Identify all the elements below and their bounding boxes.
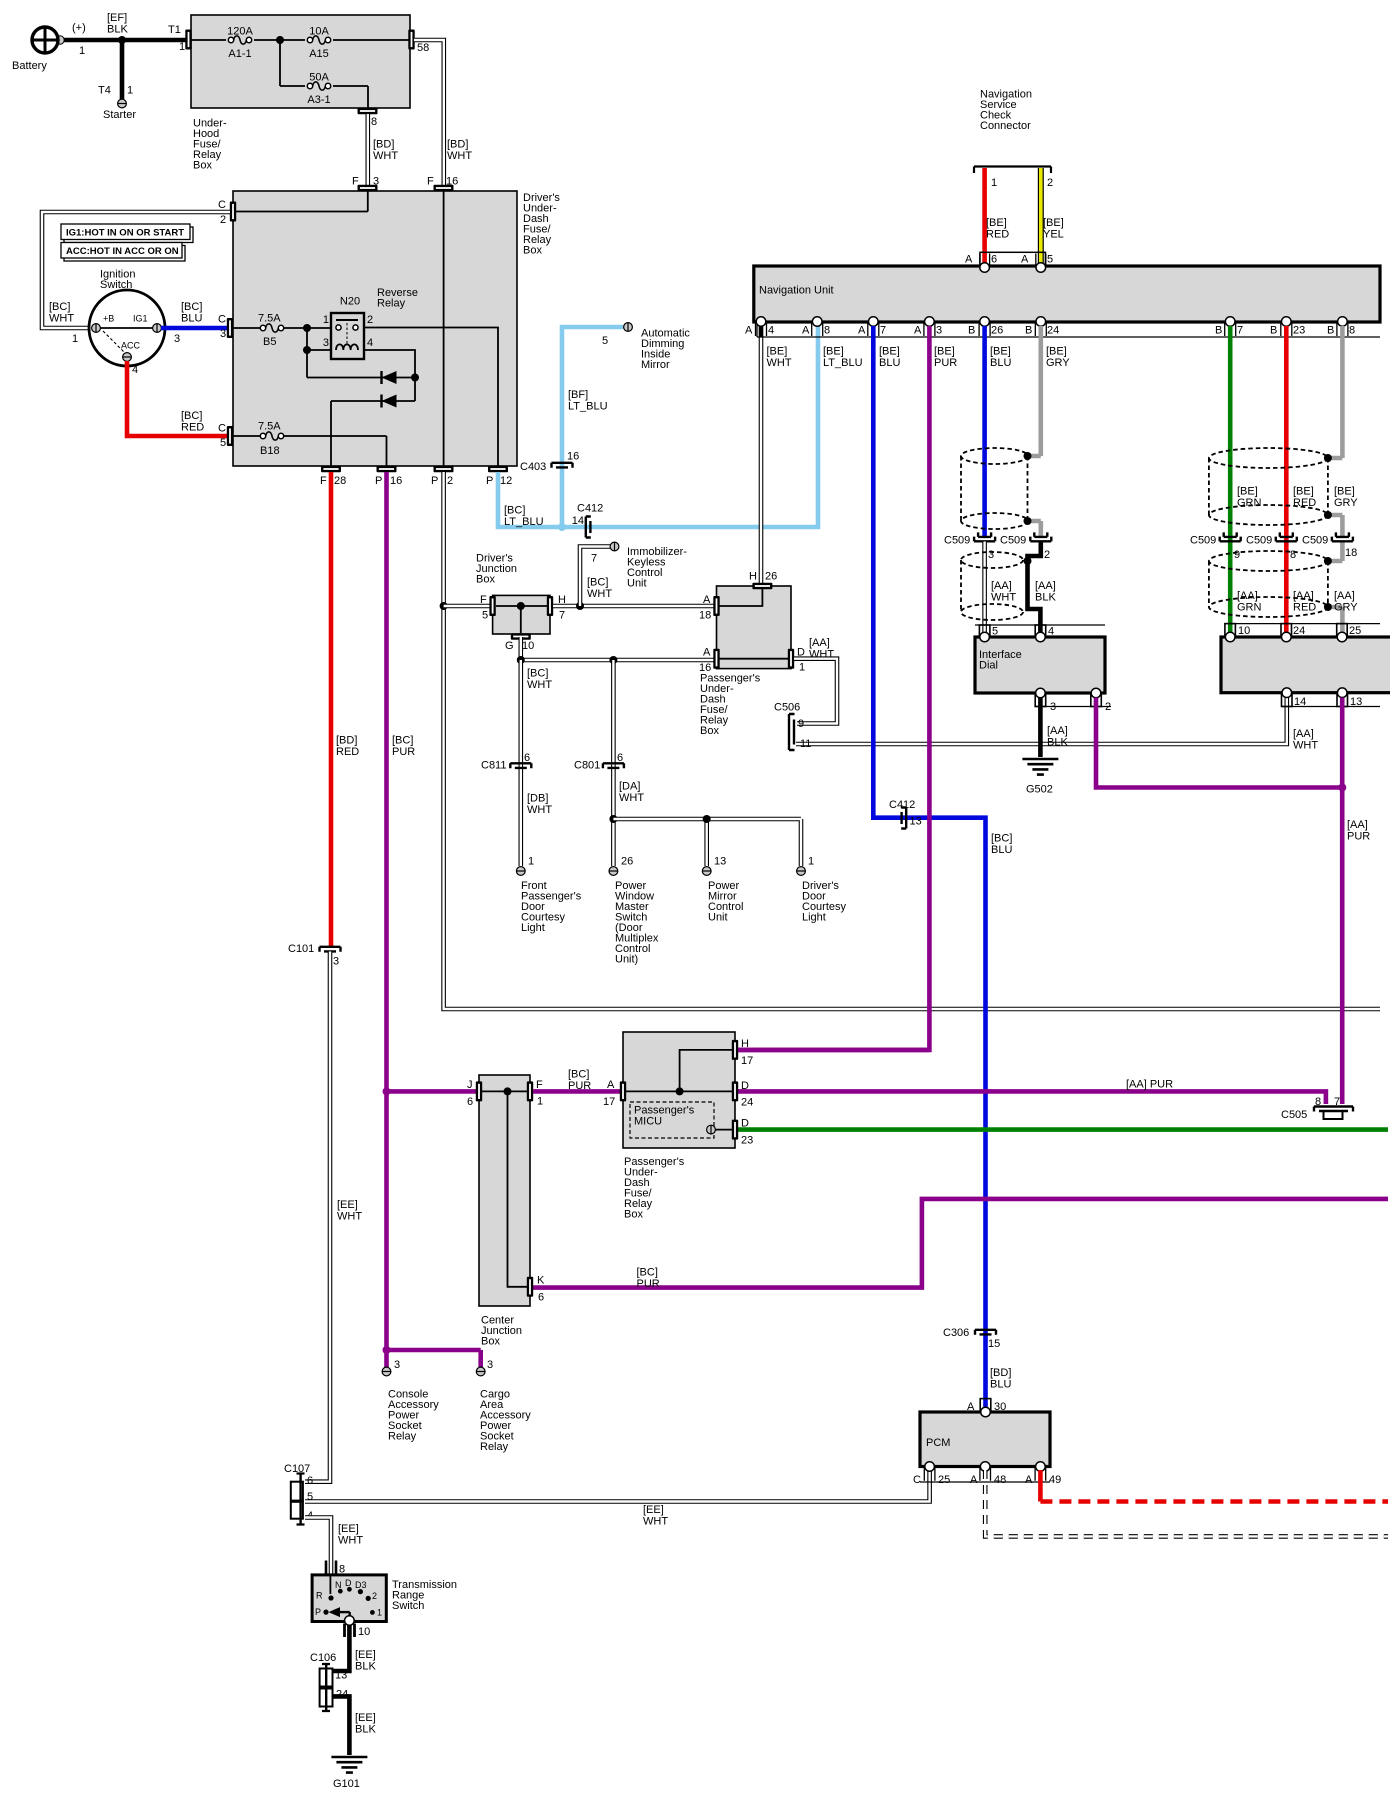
- svg-text:7: 7: [1237, 325, 1243, 337]
- wire [BF] LT_BLU mirror: [562, 327, 623, 527]
- connector A17: [620, 1081, 626, 1101]
- svg-text:24: 24: [741, 1097, 753, 1109]
- wire [BC] BLU ignition IG1 to C3: [161, 326, 227, 331]
- svg-text:[BC]BLU: [BC]BLU: [181, 301, 202, 325]
- fuse 120A A1-1: [228, 36, 251, 44]
- svg-text:[BC]PUR: [BC]PUR: [568, 1069, 591, 1093]
- svg-text:A: A: [703, 594, 711, 606]
- svg-text:C509: C509: [1302, 535, 1328, 547]
- svg-text:5: 5: [992, 626, 998, 638]
- junction mirror control: [703, 815, 711, 823]
- svg-text:PCM: PCM: [926, 1437, 950, 1449]
- terminal dial 2: [1091, 688, 1101, 698]
- svg-text:6: 6: [538, 1292, 544, 1304]
- svg-text:2: 2: [447, 475, 453, 487]
- svg-text:26: 26: [991, 325, 1003, 337]
- svg-text:2: 2: [1044, 549, 1050, 561]
- svg-text:A: A: [858, 325, 866, 337]
- terminal immobilizer pin 7: [610, 542, 619, 551]
- svg-text:1: 1: [799, 662, 805, 674]
- diode D1: [382, 371, 397, 384]
- svg-text:6: 6: [467, 1096, 473, 1108]
- svg-text:11: 11: [800, 738, 811, 750]
- svg-text:1: 1: [537, 1096, 543, 1108]
- junction internal cjb: [504, 1087, 512, 1095]
- terminal module 14: [1282, 688, 1292, 698]
- junction B5 node: [303, 324, 311, 332]
- wire white courtesy row: [613, 819, 801, 866]
- svg-text:13: 13: [335, 1670, 347, 1682]
- svg-text:1: 1: [72, 333, 78, 345]
- wire white to F5: [444, 604, 490, 609]
- terminal A48: [980, 1462, 990, 1472]
- pin bracket module 24: [1281, 624, 1292, 637]
- svg-text:120A: 120A: [227, 26, 253, 38]
- passenger's under-dash fuse/relay box upper: [717, 586, 792, 669]
- interface dial top strip: [975, 624, 1105, 626]
- wire [BC] PUR H17 right: [738, 1048, 929, 1053]
- wire [AA] PUR D24 to C505-8: [738, 1091, 1326, 1104]
- wire [AA] BLK dial pin3 to G502: [1038, 698, 1043, 758]
- svg-text:F: F: [480, 594, 487, 606]
- svg-text:B: B: [1025, 325, 1032, 337]
- contact 2: [366, 1596, 371, 1601]
- connector H17: [732, 1040, 738, 1060]
- junction internal: [676, 1087, 684, 1095]
- svg-text:12: 12: [500, 475, 512, 487]
- svg-text:C412: C412: [889, 799, 915, 811]
- terminal B24: [1036, 317, 1046, 327]
- junction C801 node: [609, 656, 617, 664]
- terminal A7: [869, 317, 879, 327]
- wire [AA] PUR pin13 down: [1340, 698, 1345, 1105]
- fuse 10A A15: [307, 36, 330, 44]
- svg-text:C801: C801: [574, 760, 600, 772]
- wire [EE] BLK C106-24 to G101: [333, 1696, 349, 1755]
- transmission range switch box: [312, 1575, 386, 1622]
- connector C801 6: [603, 763, 624, 768]
- svg-text:16: 16: [390, 475, 402, 487]
- svg-text:C: C: [913, 1474, 921, 1486]
- svg-text:ACC:HOT IN ACC OR ON: ACC:HOT IN ACC OR ON: [66, 246, 179, 257]
- terminal console accessory power socket relay pin 3: [382, 1367, 391, 1376]
- wire [BE]/[BC]/[BD] BLU A7 to PCM A30: [873, 326, 985, 1412]
- junction purple node: [1338, 784, 1346, 792]
- svg-text:3: 3: [323, 337, 329, 349]
- terminal A4: [756, 317, 766, 327]
- svg-text:C: C: [218, 314, 226, 326]
- under-hood fuse/relay box: [191, 15, 410, 108]
- svg-text:24: 24: [1047, 325, 1059, 337]
- svg-text:[AA]RED: [AA]RED: [1293, 590, 1316, 614]
- terminal A6: [980, 263, 990, 273]
- svg-text:[EE]BLK: [EE]BLK: [355, 1712, 376, 1736]
- pin bracket module 14: [1282, 693, 1293, 707]
- junction diode node: [411, 374, 419, 382]
- connector pin 58: [408, 30, 414, 50]
- wire diode1 row: [307, 350, 415, 378]
- wire [DA] WHT to power window master switch: [611, 660, 616, 866]
- junction courtesy row: [609, 815, 617, 823]
- wire fuse B5 row: [233, 327, 336, 329]
- starter terminal: [118, 99, 127, 108]
- svg-text:2: 2: [367, 314, 373, 326]
- svg-text:B: B: [968, 325, 975, 337]
- wire [EE] WHT C101 to C107: [305, 952, 330, 1482]
- wire [BC] PUR P16 down: [384, 472, 389, 1350]
- terminal ACC: [123, 353, 132, 362]
- svg-text:[BE]PUR: [BE]PUR: [934, 346, 957, 370]
- svg-text:7.5A: 7.5A: [258, 313, 281, 325]
- nav bottom connector strip: [757, 322, 1380, 337]
- svg-text:1: 1: [323, 314, 329, 326]
- terminal B7: [1225, 317, 1235, 327]
- connector C403 16: [552, 463, 573, 468]
- wire [BE] RED check connector pin1: [982, 168, 987, 266]
- svg-text:A: A: [970, 1474, 978, 1486]
- contact N: [338, 1589, 343, 1594]
- svg-text:C509: C509: [1246, 535, 1272, 547]
- svg-text:2: 2: [220, 214, 226, 226]
- terminal module 24: [1282, 632, 1292, 642]
- wire [AA] GRN D23 to right edge: [738, 1127, 1388, 1132]
- connector C509 9: [1220, 532, 1241, 541]
- svg-text:J: J: [467, 1079, 473, 1091]
- svg-text:16: 16: [446, 176, 458, 188]
- svg-text:A1-1: A1-1: [228, 48, 251, 60]
- svg-text:(+): (+): [72, 22, 86, 34]
- pin bracket dial 3: [1035, 693, 1046, 707]
- ignition switch: [89, 290, 165, 366]
- svg-text:8: 8: [1315, 1096, 1321, 1108]
- terminal module 10: [1225, 632, 1235, 642]
- terminal power mirror control unit pin 13: [702, 867, 711, 876]
- svg-text:C509: C509: [1000, 535, 1026, 547]
- svg-text:3: 3: [333, 956, 339, 968]
- svg-text:1: 1: [79, 45, 85, 57]
- svg-text:C403: C403: [520, 461, 546, 473]
- svg-text:C: C: [218, 199, 226, 211]
- connector A18: [713, 596, 719, 616]
- pin bracket C25: [924, 1468, 935, 1481]
- wire [BC] WHT P2 down and right: [444, 472, 1380, 1009]
- connector J6: [476, 1081, 482, 1101]
- pin bracket module 13: [1337, 693, 1348, 707]
- svg-text:2: 2: [1105, 701, 1111, 713]
- svg-text:T1: T1: [168, 24, 181, 36]
- connector C2: [230, 202, 236, 222]
- passenger's under-dash fuse/relay box lower: [623, 1032, 735, 1148]
- wire [BE] PUR A3 to H17: [738, 326, 929, 1050]
- svg-text:C: C: [218, 423, 226, 435]
- svg-text:7: 7: [880, 325, 886, 337]
- svg-text:[BC]BLU: [BC]BLU: [991, 833, 1012, 857]
- wire [BC] PUR to J6: [387, 1089, 478, 1094]
- svg-text:1: 1: [808, 856, 814, 868]
- wire internal A18 to H26: [719, 589, 788, 659]
- terminal module 25: [1337, 632, 1347, 642]
- svg-text:ACC: ACC: [121, 341, 141, 351]
- junction G10 node: [517, 656, 525, 664]
- svg-text:[AA] PUR: [AA] PUR: [1126, 1079, 1173, 1091]
- connector D23: [732, 1120, 738, 1140]
- pin bracket A49: [1035, 1468, 1046, 1481]
- svg-text:A: A: [802, 325, 810, 337]
- svg-text:5: 5: [1047, 254, 1053, 266]
- svg-text:13: 13: [1350, 696, 1362, 708]
- svg-text:3: 3: [936, 325, 942, 337]
- svg-text:18: 18: [1345, 547, 1357, 559]
- pin bracket dial 5: [979, 625, 990, 637]
- junction blk drain: [1024, 557, 1032, 565]
- svg-text:1: 1: [377, 1608, 382, 1618]
- pin bracket PCM A30: [980, 1399, 991, 1412]
- svg-text:48: 48: [994, 1474, 1006, 1486]
- wire internal J6-F1-K6: [482, 1091, 527, 1286]
- svg-text:1: 1: [127, 85, 133, 97]
- svg-text:K: K: [537, 1275, 545, 1287]
- svg-text:C506: C506: [774, 702, 800, 714]
- wire TRS internal to R: [329, 1576, 331, 1594]
- wire [AA] WHT C506-11 to module pin14: [796, 694, 1287, 744]
- svg-text:A15: A15: [309, 48, 329, 60]
- contact D: [347, 1587, 352, 1592]
- wire relay pin2 to P12: [364, 328, 498, 467]
- wire [BC] WHT ignition loop: [42, 212, 230, 328]
- svg-text:G101: G101: [333, 1778, 360, 1790]
- wire [BC] PUR F1 to A17: [533, 1089, 620, 1094]
- note box IG1: [61, 224, 193, 243]
- svg-text:C412: C412: [577, 503, 603, 515]
- svg-text:B5: B5: [263, 336, 276, 348]
- module bottom strip: [1282, 706, 1380, 708]
- svg-text:7: 7: [591, 553, 597, 565]
- svg-text:D: D: [741, 1080, 749, 1092]
- terminal dial 4: [1036, 632, 1046, 642]
- junction immobilizer branch: [576, 602, 584, 610]
- pin bracket A48: [980, 1468, 991, 1481]
- svg-text:P: P: [315, 1607, 321, 1617]
- svg-text:3: 3: [220, 328, 226, 340]
- drain wire dashed: [1027, 456, 1029, 521]
- junction coil node: [303, 346, 311, 354]
- wire [BE] BLU B26 to C509: [982, 326, 987, 536]
- wire [EE] BLK pin10 to C106: [333, 1626, 349, 1672]
- wire white G10 to A16: [521, 637, 714, 660]
- svg-text:24: 24: [1293, 625, 1305, 637]
- wire fuse B18 row: [233, 436, 387, 466]
- svg-text:4: 4: [367, 337, 373, 349]
- ground G101: [331, 1757, 367, 1773]
- wire junction box internal: [496, 606, 547, 633]
- connector C106: [320, 1664, 333, 1712]
- svg-text:3: 3: [1050, 701, 1056, 713]
- svg-text:[BE]GRY: [BE]GRY: [1046, 346, 1070, 370]
- contact D3: [358, 1589, 363, 1594]
- svg-text:D: D: [741, 1118, 749, 1130]
- fuse 7.5A B18: [260, 432, 283, 440]
- terminal MICU: [707, 1125, 716, 1134]
- terminal B8: [1338, 317, 1348, 327]
- wire white H7 to A18: [553, 604, 714, 609]
- svg-text:6: 6: [307, 1475, 313, 1487]
- pin bracket module 10: [1225, 624, 1236, 637]
- connector strip A6 A5: [980, 252, 1045, 266]
- shield cylinder B26 upper: [961, 448, 1028, 529]
- connector C509 3: [974, 532, 995, 541]
- terminal module 13: [1337, 688, 1347, 698]
- svg-text:6: 6: [524, 752, 530, 764]
- junction P2 white at junction box: [440, 602, 448, 610]
- TRS wiper arrow: [329, 1607, 350, 1621]
- svg-text:9: 9: [1234, 549, 1240, 561]
- wire C2 to F3 internal: [236, 191, 368, 212]
- svg-text:A: A: [1021, 254, 1029, 266]
- svg-text:23: 23: [1293, 325, 1305, 337]
- connector F3: [358, 185, 378, 191]
- module top strip: [1226, 623, 1380, 625]
- svg-text:A: A: [965, 254, 973, 266]
- wire [DB] WHT to front passenger courtesy light: [518, 660, 523, 866]
- svg-text:3: 3: [373, 176, 379, 188]
- terminal driver's door courtesy light pin 1: [797, 867, 806, 876]
- shield cylinder lower left: [961, 552, 1023, 620]
- wire [BE] WHT A4 to H26: [759, 326, 764, 583]
- junction lt_blu: [558, 523, 566, 531]
- junction purple console node: [383, 1087, 391, 1095]
- svg-text:[BC]PUR: [BC]PUR: [392, 735, 415, 759]
- svg-text:H: H: [749, 571, 757, 583]
- connector C505: [1314, 1107, 1353, 1120]
- svg-text:4: 4: [132, 364, 138, 376]
- svg-text:8: 8: [1290, 549, 1296, 561]
- svg-text:A: A: [1025, 1474, 1033, 1486]
- svg-text:1: 1: [528, 856, 534, 868]
- svg-text:A: A: [703, 647, 711, 659]
- svg-text:IG1: IG1: [133, 314, 148, 324]
- connector pin 10 TRS: [345, 1624, 355, 1638]
- wire [EE] WHT C107-4 to TRS pin8: [305, 1518, 331, 1576]
- svg-text:3: 3: [487, 1359, 493, 1371]
- wire [EE] WHT C107-5 to PCM C25: [305, 1470, 930, 1502]
- terminal B23: [1282, 317, 1292, 327]
- wire to relay coil: [307, 328, 364, 351]
- svg-text:[EE]BLK: [EE]BLK: [355, 1649, 376, 1673]
- junction internal: [517, 602, 525, 610]
- terminal mirror pin 5: [624, 323, 633, 332]
- connector C107: [291, 1473, 305, 1525]
- wire under-hood internal: [191, 40, 412, 108]
- connector C509 8: [1276, 532, 1297, 541]
- wire [BE] GRY B24 drain upper: [1028, 326, 1041, 536]
- svg-text:7.5A: 7.5A: [258, 421, 281, 433]
- svg-text:16: 16: [567, 451, 579, 463]
- battery: [31, 26, 59, 54]
- svg-text:C811: C811: [481, 760, 506, 772]
- connector D1: [788, 649, 794, 669]
- connector F16: [434, 185, 454, 191]
- pin bracket dial 4: [1035, 625, 1046, 637]
- svg-text:58: 58: [417, 42, 429, 54]
- wire [AA] WHT D1 to C506: [794, 659, 837, 724]
- svg-text:[BD]RED: [BD]RED: [336, 735, 359, 759]
- contact 1: [370, 1610, 375, 1615]
- wire [AA] WHT C509-3 to dial pin5: [982, 542, 987, 635]
- svg-text:F: F: [427, 176, 434, 188]
- svg-text:10: 10: [358, 1626, 370, 1638]
- junction battery/starter: [118, 36, 126, 44]
- connector C509 18: [1332, 532, 1353, 541]
- connector F28: [321, 466, 341, 472]
- svg-text:8: 8: [371, 116, 377, 128]
- pin ticks nav strip: [756, 324, 1348, 337]
- wire [BE] YEL check connector pin2: [1038, 168, 1044, 266]
- svg-text:[BC]RED: [BC]RED: [181, 410, 204, 434]
- wire [BC] LT_BLU P12 to A8: [498, 326, 818, 527]
- drain dashed right lower: [1327, 561, 1329, 607]
- connector C412 14: [586, 517, 591, 538]
- svg-text:Starter: Starter: [103, 109, 136, 121]
- svg-text:F: F: [352, 176, 359, 188]
- shield cylinder right upper: [1209, 448, 1328, 525]
- terminal TRS pin 10: [345, 1616, 355, 1626]
- shield cylinder right lower: [1209, 551, 1328, 617]
- svg-text:1: 1: [179, 41, 185, 53]
- interface dial box: [975, 637, 1105, 693]
- svg-text:[AA]GRY: [AA]GRY: [1334, 590, 1358, 614]
- wire [AA] BLK C509-2 to dial pin4: [1028, 542, 1041, 638]
- svg-text:[BE]RED: [BE]RED: [986, 217, 1009, 241]
- svg-text:C509: C509: [944, 535, 970, 547]
- terminal C25: [925, 1462, 935, 1472]
- svg-text:[AA]BLK: [AA]BLK: [1047, 725, 1068, 749]
- wire [EE] WHT dashed A48: [985, 1470, 1388, 1536]
- connector C306 15: [975, 1330, 996, 1335]
- svg-text:D3: D3: [355, 1580, 367, 1590]
- svg-text:14: 14: [572, 515, 584, 527]
- terminal A49: [1036, 1462, 1046, 1472]
- svg-text:15: 15: [988, 1338, 1000, 1350]
- terminal A30: [981, 1407, 991, 1417]
- fuse 50A A3-1: [307, 82, 330, 90]
- wire [BE]/[AA] GRN B7 to module pin10: [1228, 326, 1233, 637]
- passenger's MICU dashed box: [630, 1102, 714, 1138]
- svg-text:4: 4: [1048, 626, 1054, 638]
- svg-text:A: A: [607, 1079, 615, 1091]
- pin bracket module 25: [1337, 624, 1348, 637]
- svg-text:[BE]GRY: [BE]GRY: [1334, 486, 1358, 510]
- connector C509 2: [1030, 532, 1051, 541]
- svg-text:9: 9: [798, 718, 804, 730]
- svg-text:B: B: [1215, 325, 1222, 337]
- terminal +B: [92, 324, 101, 333]
- svg-text:N20: N20: [340, 296, 360, 308]
- svg-text:R: R: [316, 1591, 323, 1601]
- terminal IG1: [153, 324, 162, 333]
- connector P12: [488, 466, 508, 472]
- connector pin 8 TRS: [326, 1561, 336, 1575]
- diode D2: [382, 395, 397, 408]
- terminal dial 3: [1036, 688, 1046, 698]
- contact P: [323, 1610, 328, 1615]
- terminal front passenger door courtesy light pin 1: [516, 867, 525, 876]
- wire [AA] PUR dial pin2 to node: [1096, 698, 1342, 788]
- svg-text:2: 2: [372, 1591, 377, 1601]
- svg-text:G502: G502: [1026, 784, 1053, 796]
- junction drain bottom: [1024, 517, 1032, 525]
- connector C412 13: [901, 808, 906, 829]
- svg-text:25: 25: [938, 1474, 950, 1486]
